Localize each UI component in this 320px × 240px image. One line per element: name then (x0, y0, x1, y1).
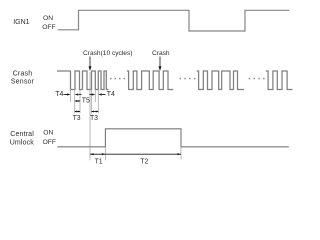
dimension T2 (105, 153, 181, 155)
svg-text:Sensor: Sensor (11, 79, 35, 86)
extension line at rise x=91.5 (91, 90, 93, 114)
wire dotted continuation 3 (249, 78, 265, 80)
svg-text:Crash(10 cycles): Crash(10 cycles) (83, 50, 132, 57)
dimension T3 first (period) (75, 111, 80, 113)
svg-text:IGN1: IGN1 (13, 19, 29, 26)
extension line at rise x=82 (79, 90, 81, 114)
svg-text:T4: T4 (107, 91, 115, 98)
svg-text:T3: T3 (90, 115, 98, 122)
wire dotted continuation 2 (180, 78, 196, 80)
extension line at rise x=75 (74, 90, 76, 114)
dimension T3 second (period) (92, 111, 99, 113)
wire crash sensor group 4 (266, 71, 293, 90)
wire crash sensor group 3 (197, 71, 244, 90)
svg-text:T5: T5 (82, 98, 90, 105)
extension line at fall x=70.5 (70, 90, 72, 103)
svg-text:Crash: Crash (13, 71, 33, 78)
extension line T1 reference x=90 (89, 72, 91, 160)
svg-text:Umlock: Umlock (10, 139, 35, 146)
svg-text:ON: ON (43, 130, 53, 137)
svg-text:T1: T1 (95, 158, 103, 165)
wire crash sensor group 2 (127, 71, 174, 90)
extension line unlock fall x=181 (180, 147, 182, 160)
wire crash sensor burst 1 (57, 71, 109, 90)
svg-text:T2: T2 (140, 158, 148, 165)
svg-text:ON: ON (43, 15, 53, 22)
svg-text:Crash: Crash (152, 50, 170, 57)
svg-text:T4: T4 (55, 91, 63, 98)
dimension T1 (90, 153, 105, 155)
svg-text:Central: Central (10, 131, 34, 138)
dimension T4 second (low time) (89, 94, 92, 96)
wire dotted continuation 1 (110, 78, 125, 80)
extension line at fall x=95.3 (94, 90, 96, 103)
arrow crash event 1 (89, 57, 91, 68)
wire central unlock waveform (58, 129, 289, 147)
svg-text:OFF: OFF (43, 139, 56, 146)
dimension T5 (high time) (75, 100, 80, 102)
svg-text:OFF: OFF (42, 24, 55, 31)
wire IGN1 waveform (58, 10, 289, 31)
arrow crash event 2 (159, 57, 161, 68)
extension line at rise x=98.3 (97, 90, 99, 114)
svg-text:T3: T3 (73, 115, 81, 122)
extension line unlock rise x=105.4 (104, 147, 106, 160)
